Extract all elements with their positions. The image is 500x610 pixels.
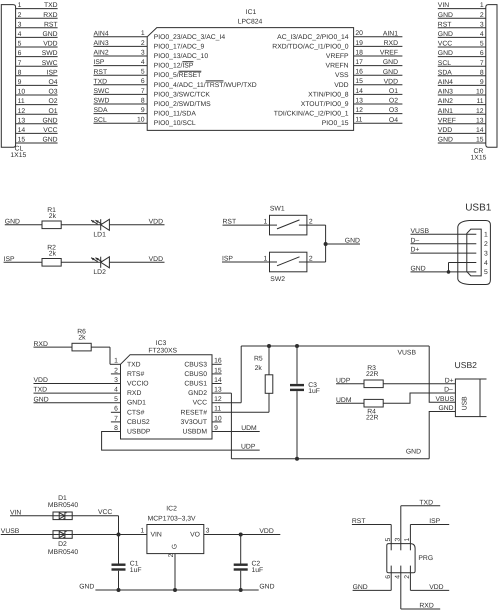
svg-text:TXD: TXD xyxy=(44,2,58,9)
CL pin 13 (GND) wire and labels xyxy=(16,117,58,124)
svg-text:1uF: 1uF xyxy=(308,388,320,395)
CL pin 6 (SWD) wire and labels xyxy=(16,50,58,57)
svg-text:USBDM: USBDM xyxy=(182,429,207,436)
svg-text:GND: GND xyxy=(406,448,421,455)
svg-text:12: 12 xyxy=(18,108,26,115)
net label ISP (to SW2) xyxy=(222,256,233,263)
svg-text:2: 2 xyxy=(480,12,484,19)
svg-text:LPC824: LPC824 xyxy=(238,18,263,25)
svg-text:CBUS3: CBUS3 xyxy=(184,361,207,368)
net label GND (USB section) xyxy=(406,448,421,455)
wire IC2 GND pin 2 to ground rail xyxy=(174,554,176,590)
CL pin 7 (SWC) wire and labels xyxy=(16,60,58,67)
svg-text:14: 14 xyxy=(355,88,363,95)
svg-text:PIO0_17/ADC_9: PIO0_17/ADC_9 xyxy=(154,43,205,50)
wire RST to PRG pin 5 xyxy=(352,525,391,551)
svg-text:9: 9 xyxy=(141,107,145,114)
junction VO / C2 xyxy=(239,533,243,537)
wire IC2 VO to VDD xyxy=(204,534,280,536)
svg-text:7: 7 xyxy=(18,60,22,67)
svg-text:VO: VO xyxy=(190,531,200,538)
net label RST (to SW1) xyxy=(223,219,237,226)
CR reference label xyxy=(471,148,487,161)
svg-text:GND: GND xyxy=(345,238,360,245)
IC3 pin 13 GND2 xyxy=(188,387,231,459)
svg-text:GND: GND xyxy=(383,59,398,66)
svg-text:4: 4 xyxy=(484,260,488,267)
CL pin 8 (ISP) wire and labels xyxy=(16,69,58,76)
svg-text:9: 9 xyxy=(480,79,484,86)
svg-text:UDP: UDP xyxy=(241,444,256,451)
svg-text:USBDP: USBDP xyxy=(127,429,151,436)
svg-text:VUSB: VUSB xyxy=(397,350,416,357)
IC3 pin 14 CBUS1 xyxy=(184,377,222,388)
IC3 pin 8 USBDP xyxy=(102,425,260,450)
svg-text:LD2: LD2 xyxy=(93,269,106,276)
USB2 pin GND label xyxy=(438,405,453,412)
svg-text:TXD: TXD xyxy=(94,78,108,85)
svg-text:GND: GND xyxy=(34,396,49,403)
svg-text:SDA: SDA xyxy=(438,69,452,76)
svg-text:VBUS: VBUS xyxy=(435,396,454,403)
svg-text:R5: R5 xyxy=(254,355,263,362)
wire R1 to LD1 xyxy=(61,224,100,226)
svg-text:11: 11 xyxy=(214,406,221,413)
CR pin 14 (VDD) wire and labels xyxy=(438,127,486,134)
svg-text:2: 2 xyxy=(141,40,145,47)
svg-text:GND: GND xyxy=(438,31,453,38)
svg-text:15: 15 xyxy=(214,367,222,374)
junction C1 on ground rail xyxy=(117,588,121,592)
svg-text:GND: GND xyxy=(79,584,94,591)
CR pin 8 (SDA) wire and labels xyxy=(438,69,486,76)
svg-text:8: 8 xyxy=(480,69,484,76)
svg-text:O3: O3 xyxy=(49,89,58,96)
svg-text:VREF: VREF xyxy=(380,50,398,57)
net label UDM (from IC3 USBDM) xyxy=(241,425,257,432)
wire GND to PRG pin 6 xyxy=(353,566,392,591)
svg-text:13: 13 xyxy=(476,117,484,124)
svg-text:O1: O1 xyxy=(389,88,398,95)
svg-text:3V3OUT: 3V3OUT xyxy=(181,419,207,426)
net label TXD (PRG) xyxy=(419,499,433,506)
svg-text:SWD: SWD xyxy=(94,98,110,105)
svg-text:2k: 2k xyxy=(49,251,57,258)
svg-text:AIN2: AIN2 xyxy=(438,98,453,105)
diode D2 MBR0540 xyxy=(48,531,78,556)
CL pin 2 (RXD) wire and labels xyxy=(16,12,58,19)
net label VDD (PRG) xyxy=(429,584,443,591)
svg-text:9: 9 xyxy=(18,79,22,86)
svg-text:1uF: 1uF xyxy=(130,567,142,574)
svg-text:AIN4: AIN4 xyxy=(94,30,109,37)
svg-text:LD1: LD1 xyxy=(93,231,106,238)
IC1 pin 8 PIO0_2/SWD/TMS / net SWD xyxy=(94,97,212,108)
svg-text:O4: O4 xyxy=(389,117,398,124)
wire GND rail up to USB2 GND xyxy=(429,412,455,459)
svg-text:3: 3 xyxy=(484,250,488,257)
svg-text:1: 1 xyxy=(264,219,268,226)
connector CR 1X15 body xyxy=(486,5,497,148)
svg-text:3: 3 xyxy=(18,21,22,28)
svg-text:4: 4 xyxy=(18,31,22,38)
svg-text:15: 15 xyxy=(476,137,484,144)
svg-text:3: 3 xyxy=(141,49,145,56)
USB2 pin D+ label xyxy=(445,377,454,384)
svg-text:5: 5 xyxy=(18,41,22,48)
svg-text:SDA: SDA xyxy=(94,107,108,114)
USB1 pin 2 (D&#8211;) xyxy=(411,237,489,248)
svg-text:MBR0540: MBR0540 xyxy=(48,549,78,556)
IC1 pin 18 VREFP / net VREF xyxy=(326,49,402,60)
svg-text:VIN: VIN xyxy=(151,531,162,538)
svg-text:14: 14 xyxy=(214,377,222,384)
net label VUSB (power) xyxy=(1,528,20,535)
svg-text:16: 16 xyxy=(214,358,222,365)
wire R6 to IC3 pin 1 xyxy=(91,347,120,364)
LED LD1 xyxy=(91,219,109,238)
svg-text:2: 2 xyxy=(484,241,488,248)
IC1 pin 10 PIO0_10/SCL / net SCL xyxy=(94,117,196,128)
svg-text:1: 1 xyxy=(141,30,145,37)
svg-text:6: 6 xyxy=(18,50,22,57)
connector USB1 label xyxy=(465,203,492,214)
svg-text:CBUS2: CBUS2 xyxy=(127,419,150,426)
overline for active-low ISP xyxy=(182,61,193,63)
svg-text:1: 1 xyxy=(18,2,22,9)
svg-text:SW1: SW1 xyxy=(270,206,285,213)
IC1 pin 15 VDD / net VDD xyxy=(334,78,402,89)
svg-text:GND: GND xyxy=(438,50,453,57)
svg-text:VREF: VREF xyxy=(438,117,456,124)
IC3 pin 15 CBUS0 xyxy=(184,367,222,378)
svg-text:10: 10 xyxy=(476,89,484,96)
resistor R3 22R xyxy=(364,365,383,388)
svg-text:TXD: TXD xyxy=(34,387,48,394)
wire VUSB to D2 xyxy=(1,534,53,536)
svg-text:5: 5 xyxy=(480,41,484,48)
svg-text:PIO0_10/SCL: PIO0_10/SCL xyxy=(154,120,196,127)
wire VUSB rail xyxy=(241,345,429,347)
svg-text:MCP1703–3,3V: MCP1703–3,3V xyxy=(148,515,196,522)
CL pin 10 (O3) wire and labels xyxy=(16,89,58,96)
svg-text:1: 1 xyxy=(140,528,144,535)
svg-text:1: 1 xyxy=(404,538,411,542)
resistor R4 22R xyxy=(364,399,383,421)
net label GND (left of R1) xyxy=(5,218,20,225)
svg-text:15: 15 xyxy=(355,78,363,85)
CL reference label xyxy=(10,146,26,159)
svg-text:CBUS1: CBUS1 xyxy=(184,381,207,388)
IC3 pin 2 RTS# xyxy=(111,367,145,378)
svg-text:RXD: RXD xyxy=(43,12,57,19)
junction VCC/VUSB at C1 xyxy=(117,533,121,537)
IC3 pin 12 VCC xyxy=(193,346,242,407)
svg-text:19: 19 xyxy=(355,40,363,47)
svg-text:VDD: VDD xyxy=(334,82,348,89)
net label GND (left end) xyxy=(79,584,94,591)
wire R2 to LD2 xyxy=(61,261,100,263)
USB1 mini-USB outline xyxy=(458,221,491,285)
wire VIN to D1 xyxy=(10,515,53,517)
svg-text:SW2: SW2 xyxy=(270,276,285,283)
svg-text:O3: O3 xyxy=(389,107,398,114)
svg-text:TXD: TXD xyxy=(127,361,141,368)
svg-text:1: 1 xyxy=(480,2,484,9)
junction C3 on VUSB rail xyxy=(295,344,299,348)
CL pin 4 (GND) wire and labels xyxy=(16,31,58,38)
svg-text:GND2: GND2 xyxy=(188,390,207,397)
svg-text:PIO0_12/ISP: PIO0_12/ISP xyxy=(154,63,194,70)
IC3 pin 10 3V3OUT xyxy=(181,415,222,426)
resistor R5 2k (vertical) xyxy=(254,346,273,393)
svg-text:20: 20 xyxy=(355,30,363,37)
svg-text:3: 3 xyxy=(394,538,401,542)
USB1 pin 5 (GND) xyxy=(411,266,489,277)
svg-text:AC_I3/ADC_2/PIO0_14: AC_I3/ADC_2/PIO0_14 xyxy=(277,34,349,41)
svg-text:12: 12 xyxy=(214,396,222,403)
IC3 pin 5 GND1 xyxy=(34,396,147,407)
svg-text:6: 6 xyxy=(114,406,118,413)
net label GND (right end) xyxy=(259,584,274,591)
svg-text:11: 11 xyxy=(355,117,362,124)
net label UDP (from IC3 USBDP) xyxy=(241,444,256,451)
wire GND to R1 xyxy=(5,224,42,226)
svg-text:4: 4 xyxy=(141,59,145,66)
svg-text:RXD: RXD xyxy=(127,390,141,397)
IC3 pin 6 CTS# xyxy=(111,406,145,417)
svg-text:VDD: VDD xyxy=(34,377,48,384)
IC1 pin 4 PIO0_12/ISP / net ISP xyxy=(94,59,194,70)
wire R3 to USB2 D+ xyxy=(383,383,455,385)
wire GND rail (USB section) xyxy=(231,458,429,460)
svg-text:G: G xyxy=(172,544,179,549)
svg-text:VCC: VCC xyxy=(98,509,112,516)
svg-text:10: 10 xyxy=(214,415,222,422)
IC1 pin 1 PIO0_23/ADC_3/AC_I4 / net AIN4 xyxy=(94,30,226,41)
svg-text:VDD: VDD xyxy=(149,256,163,263)
svg-text:1uF: 1uF xyxy=(252,567,264,574)
svg-text:FT230XS: FT230XS xyxy=(148,347,177,354)
connector PRG body xyxy=(387,544,433,573)
overline for active-low RESET xyxy=(179,70,202,72)
svg-text:VDD: VDD xyxy=(259,528,273,535)
svg-text:3: 3 xyxy=(480,21,484,28)
wire RXD to PRG pin 4 xyxy=(401,566,440,609)
svg-text:O1: O1 xyxy=(49,108,58,115)
svg-text:AIN2: AIN2 xyxy=(94,50,109,57)
svg-text:10: 10 xyxy=(18,89,26,96)
CR pin 13 (VREF) wire and labels xyxy=(438,117,486,124)
svg-text:11: 11 xyxy=(18,98,25,105)
CR pin 15 (GND) wire and labels xyxy=(438,137,486,144)
net label RST (PRG) xyxy=(352,518,366,525)
svg-text:2: 2 xyxy=(168,553,175,557)
svg-text:PIO0_23/ADC_3/AC_I4: PIO0_23/ADC_3/AC_I4 xyxy=(154,34,226,41)
svg-text:8: 8 xyxy=(114,425,118,432)
IC3 pin 1 TXD xyxy=(114,358,141,369)
svg-text:VIN: VIN xyxy=(438,2,449,9)
svg-text:18: 18 xyxy=(355,49,363,56)
svg-text:SWD: SWD xyxy=(42,50,58,57)
svg-text:D+: D+ xyxy=(445,377,454,384)
wire D2 to IC2 VIN xyxy=(72,534,147,536)
ground rail (power section) xyxy=(95,589,258,591)
svg-text:RXD/TDO/AC_I1/PIO0_0: RXD/TDO/AC_I1/PIO0_0 xyxy=(272,43,349,50)
wire UDP to R3 xyxy=(336,383,364,385)
CL pin 14 (VCC) wire and labels xyxy=(16,127,58,134)
svg-text:GND: GND xyxy=(438,137,453,144)
svg-text:GND: GND xyxy=(438,405,453,412)
CR pin 4 (GND) wire and labels xyxy=(438,31,486,38)
CL pin 11 (O2) wire and labels xyxy=(16,98,58,105)
svg-text:VDD: VDD xyxy=(43,41,57,48)
svg-text:2k: 2k xyxy=(49,213,57,220)
svg-text:D–: D– xyxy=(411,237,420,244)
svg-text:1: 1 xyxy=(114,358,118,365)
svg-text:PIO0_5/RESET: PIO0_5/RESET xyxy=(154,72,202,79)
USB1 pin 4 (ID, tied to GND) xyxy=(449,260,489,272)
CR pin 9 (AIN4) wire and labels xyxy=(438,79,486,86)
svg-text:4: 4 xyxy=(114,387,118,394)
IC1 pin 17 VREFN / net GND xyxy=(326,59,403,70)
svg-text:5: 5 xyxy=(484,269,488,276)
svg-text:13: 13 xyxy=(18,117,26,124)
LED LD2 xyxy=(91,257,109,276)
CL pin 9 (O4) wire and labels xyxy=(16,79,58,86)
wire LD1 to VDD xyxy=(109,224,164,226)
svg-text:GND: GND xyxy=(42,117,57,124)
net label VDD (row 1) xyxy=(149,218,163,225)
capacitor C1 1uF xyxy=(112,561,142,591)
svg-text:VREFP: VREFP xyxy=(326,53,349,60)
junction R5 on VUSB rail xyxy=(267,344,271,348)
svg-text:VCC: VCC xyxy=(43,127,57,134)
svg-text:RST: RST xyxy=(44,21,58,28)
svg-text:AIN1: AIN1 xyxy=(438,108,453,115)
svg-text:PIO0_11/SDA: PIO0_11/SDA xyxy=(154,111,197,118)
CR pin 7 (SCL) wire and labels xyxy=(438,60,486,67)
IC1 pin 14 XTIN/PIO0_8 / net O1 xyxy=(308,88,402,99)
wire VDD to PRG pin 2 xyxy=(410,566,449,591)
svg-text:USB1: USB1 xyxy=(465,203,492,214)
capacitor C2 1uF xyxy=(234,535,264,591)
wire UDM to R4 xyxy=(336,402,364,404)
wire RST to SW1 xyxy=(223,224,270,226)
svg-text:12: 12 xyxy=(355,107,363,114)
svg-text:VREFN: VREFN xyxy=(326,63,349,70)
CR pin 12 (AIN1) wire and labels xyxy=(438,108,486,115)
CL pin 15 (GND) wire and labels xyxy=(16,137,58,144)
CL pin 1 (TXD) wire and labels xyxy=(16,2,58,9)
svg-text:VDD: VDD xyxy=(438,127,452,134)
svg-text:2k: 2k xyxy=(78,335,86,342)
svg-text:PIO0_15: PIO0_15 xyxy=(322,120,349,127)
svg-text:UDM: UDM xyxy=(241,425,257,432)
USB2 pin VBUS label xyxy=(435,396,454,403)
svg-text:D–: D– xyxy=(444,387,453,394)
svg-text:GND1: GND1 xyxy=(127,400,146,407)
svg-text:MBR0540: MBR0540 xyxy=(48,502,78,509)
svg-text:3: 3 xyxy=(114,377,118,384)
IC1 pin 9 PIO0_11/SDA / net SDA xyxy=(94,107,197,118)
CR pin 11 (AIN2) wire and labels xyxy=(438,98,486,105)
IC1 pin 7 PIO0_3/SWC/TCK / net SWC xyxy=(94,88,211,99)
IC3 pin 16 CBUS3 xyxy=(184,358,222,369)
svg-text:VCC: VCC xyxy=(438,41,452,48)
net label GND (switches) xyxy=(345,238,360,245)
svg-text:PIO0_2/SWD/TMS: PIO0_2/SWD/TMS xyxy=(154,101,211,108)
IC1 pin 11 PIO0_15 / net O4 xyxy=(322,117,403,128)
IC3 pin 4 RXD xyxy=(34,387,142,398)
svg-text:D1: D1 xyxy=(58,495,67,502)
svg-text:XTOUT/PIO0_9: XTOUT/PIO0_9 xyxy=(301,101,349,108)
svg-text:11: 11 xyxy=(477,98,484,105)
svg-text:1: 1 xyxy=(264,256,268,263)
IC1 LPC824 body xyxy=(147,9,353,130)
svg-text:7: 7 xyxy=(114,415,118,422)
wire ISP to PRG pin 1 xyxy=(410,525,449,551)
svg-text:4: 4 xyxy=(394,575,401,579)
CR pin 1 (VIN) wire and labels xyxy=(438,2,486,9)
CR pin 10 (AIN3) wire and labels xyxy=(438,89,486,96)
svg-text:2: 2 xyxy=(18,12,22,19)
net label GND (PRG) xyxy=(353,584,368,591)
svg-text:VUSB: VUSB xyxy=(411,228,430,235)
svg-text:1X15: 1X15 xyxy=(10,152,26,159)
wire ISP to R2 xyxy=(4,261,42,263)
svg-text:7: 7 xyxy=(480,60,484,67)
svg-text:14: 14 xyxy=(18,127,26,134)
CL pin 5 (VDD) wire and labels xyxy=(16,41,58,48)
IC3 pin 3 VCCIO xyxy=(34,377,149,388)
svg-text:PIO0_3/SWC/TCK: PIO0_3/SWC/TCK xyxy=(154,91,211,98)
svg-text:16: 16 xyxy=(355,69,363,76)
svg-text:AIN4: AIN4 xyxy=(438,79,453,86)
net label UDP (to R3) xyxy=(336,377,351,384)
svg-text:RXD: RXD xyxy=(384,40,398,47)
net label RXD (PRG) xyxy=(419,603,433,610)
svg-text:D2: D2 xyxy=(58,541,67,548)
svg-text:XTIN/PIO0_8: XTIN/PIO0_8 xyxy=(308,91,349,98)
svg-text:SWC: SWC xyxy=(94,88,110,95)
IC3 pin 11 RESET# xyxy=(181,393,269,416)
svg-text:13: 13 xyxy=(355,97,363,104)
connector USB2 body xyxy=(455,379,486,417)
svg-text:SCL: SCL xyxy=(438,60,451,67)
svg-text:7: 7 xyxy=(141,88,145,95)
junction C2 on ground rail xyxy=(239,588,243,592)
svg-text:GND: GND xyxy=(383,69,398,76)
svg-text:8: 8 xyxy=(141,97,145,104)
CR pin 5 (VCC) wire and labels xyxy=(438,41,486,48)
svg-text:IC2: IC2 xyxy=(166,506,177,513)
wire TXD to PRG pin 3 xyxy=(401,506,440,551)
net label VDD (regulator out) xyxy=(259,528,273,535)
wire ISP to SW2 xyxy=(222,261,270,263)
junction USB1 pin4/pin5 GND xyxy=(447,270,451,274)
svg-text:5: 5 xyxy=(385,538,392,542)
svg-text:AIN3: AIN3 xyxy=(438,89,453,96)
svg-text:1: 1 xyxy=(484,232,488,239)
svg-text:RESET#: RESET# xyxy=(181,409,208,416)
switch SW2 xyxy=(264,252,313,283)
svg-text:VSS: VSS xyxy=(335,72,349,79)
svg-text:O4: O4 xyxy=(49,79,58,86)
IC3 pin 7 CBUS2 xyxy=(111,415,150,426)
svg-text:IC3: IC3 xyxy=(156,340,167,347)
CL pin 12 (O1) wire and labels xyxy=(16,108,58,115)
